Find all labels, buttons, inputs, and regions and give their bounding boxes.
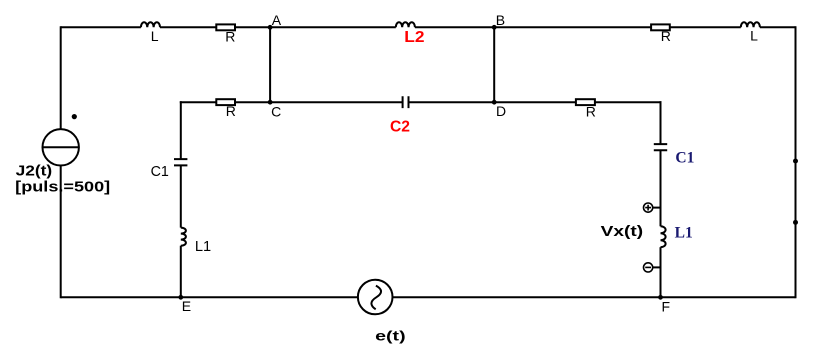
svg-text:C1: C1 bbox=[151, 163, 169, 180]
inductor L (top-right) bbox=[741, 22, 760, 27]
wire bottom left bbox=[61, 296, 358, 298]
svg-text:L: L bbox=[750, 28, 758, 44]
wire right branch lower bbox=[660, 247, 662, 297]
Vx(t) minus tick wire bbox=[653, 266, 661, 268]
svg-text:C1: C1 bbox=[675, 149, 694, 166]
inductor L1 (right) bbox=[661, 226, 666, 247]
J2 polarity dot bbox=[72, 114, 77, 119]
node C junction dot bbox=[268, 100, 273, 105]
right edge junction dot upper bbox=[793, 159, 798, 164]
inductor L2 bbox=[396, 22, 415, 27]
current source J2(t) bar bbox=[43, 146, 79, 148]
svg-text:E: E bbox=[182, 298, 191, 314]
resistor R (top-right box) bbox=[651, 24, 670, 30]
wire row2 left corner to R bbox=[180, 101, 217, 103]
capacitor C2 plates bbox=[403, 96, 409, 108]
svg-text:L2: L2 bbox=[404, 29, 424, 46]
node B junction dot bbox=[492, 25, 497, 30]
wire R to right inner corner bbox=[595, 101, 662, 103]
wire top-right corner bbox=[760, 26, 796, 28]
svg-text:F: F bbox=[662, 299, 671, 315]
svg-text:C: C bbox=[271, 104, 281, 120]
wire L2 to R (passes node B) bbox=[415, 26, 651, 28]
wire node B to node D vertical bbox=[493, 27, 495, 102]
wire left branch lower bbox=[180, 246, 182, 298]
svg-text:B: B bbox=[496, 12, 505, 28]
inductor L1 (left) bbox=[181, 228, 186, 246]
svg-text:R: R bbox=[661, 28, 671, 44]
Vx(t) plus tick wire bbox=[653, 207, 661, 209]
wire left vertical lower bbox=[60, 166, 62, 299]
wire top-left horizontal bbox=[61, 26, 141, 28]
svg-text:L: L bbox=[151, 28, 159, 44]
wire R to L2 (passes node A) bbox=[235, 26, 396, 28]
wire right branch upper bbox=[660, 101, 662, 144]
node F junction dot bbox=[658, 295, 663, 300]
svg-text:C2: C2 bbox=[390, 119, 410, 136]
svg-text:[puls.=500]: [puls.=500] bbox=[15, 179, 110, 196]
voltage source e(t) sine wave bbox=[371, 286, 381, 310]
wire left branch upper bbox=[180, 101, 182, 159]
resistor R1 (top-left box) bbox=[216, 24, 235, 30]
Vx(t) minus terminal bbox=[644, 263, 653, 272]
capacitor C1 (right) plates bbox=[654, 144, 667, 150]
voltage source e(t) circle bbox=[358, 280, 393, 315]
svg-text:L1: L1 bbox=[675, 225, 693, 242]
wire L to R (top-left) bbox=[160, 26, 216, 28]
wire R to C2 (passes node C) bbox=[235, 101, 403, 103]
svg-text:Vx(t): Vx(t) bbox=[601, 223, 644, 240]
svg-text:R: R bbox=[586, 103, 596, 119]
svg-text:A: A bbox=[272, 12, 282, 28]
svg-text:e(t): e(t) bbox=[375, 328, 405, 344]
wire R to L (top-right) bbox=[670, 26, 741, 28]
wire left vertical upper bbox=[60, 26, 62, 129]
wire right branch middle bbox=[660, 150, 662, 226]
capacitor C1 (left) plates bbox=[174, 159, 187, 165]
node A junction dot bbox=[268, 25, 273, 30]
Vx(t) plus terminal bbox=[644, 203, 653, 212]
svg-text:D: D bbox=[496, 103, 506, 119]
wire node A to node C vertical bbox=[269, 27, 271, 102]
wire bottom right bbox=[393, 296, 796, 298]
wire C2 to R (passes node D) bbox=[409, 101, 576, 103]
inductor L (top-left) bbox=[141, 22, 160, 27]
right edge junction dot lower bbox=[793, 220, 798, 225]
current source J2(t) circle bbox=[43, 129, 79, 165]
svg-text:L1: L1 bbox=[195, 238, 211, 255]
svg-text:R: R bbox=[225, 28, 235, 44]
node E junction dot bbox=[178, 295, 183, 300]
resistor R (row2-right box) bbox=[576, 99, 595, 105]
resistor R (row2-left box) bbox=[216, 99, 235, 105]
wire right vertical bbox=[795, 26, 797, 298]
svg-text:R: R bbox=[226, 103, 236, 119]
wire left branch middle bbox=[180, 165, 182, 227]
svg-text:J2(t): J2(t) bbox=[16, 163, 53, 180]
node D junction dot bbox=[492, 100, 497, 105]
